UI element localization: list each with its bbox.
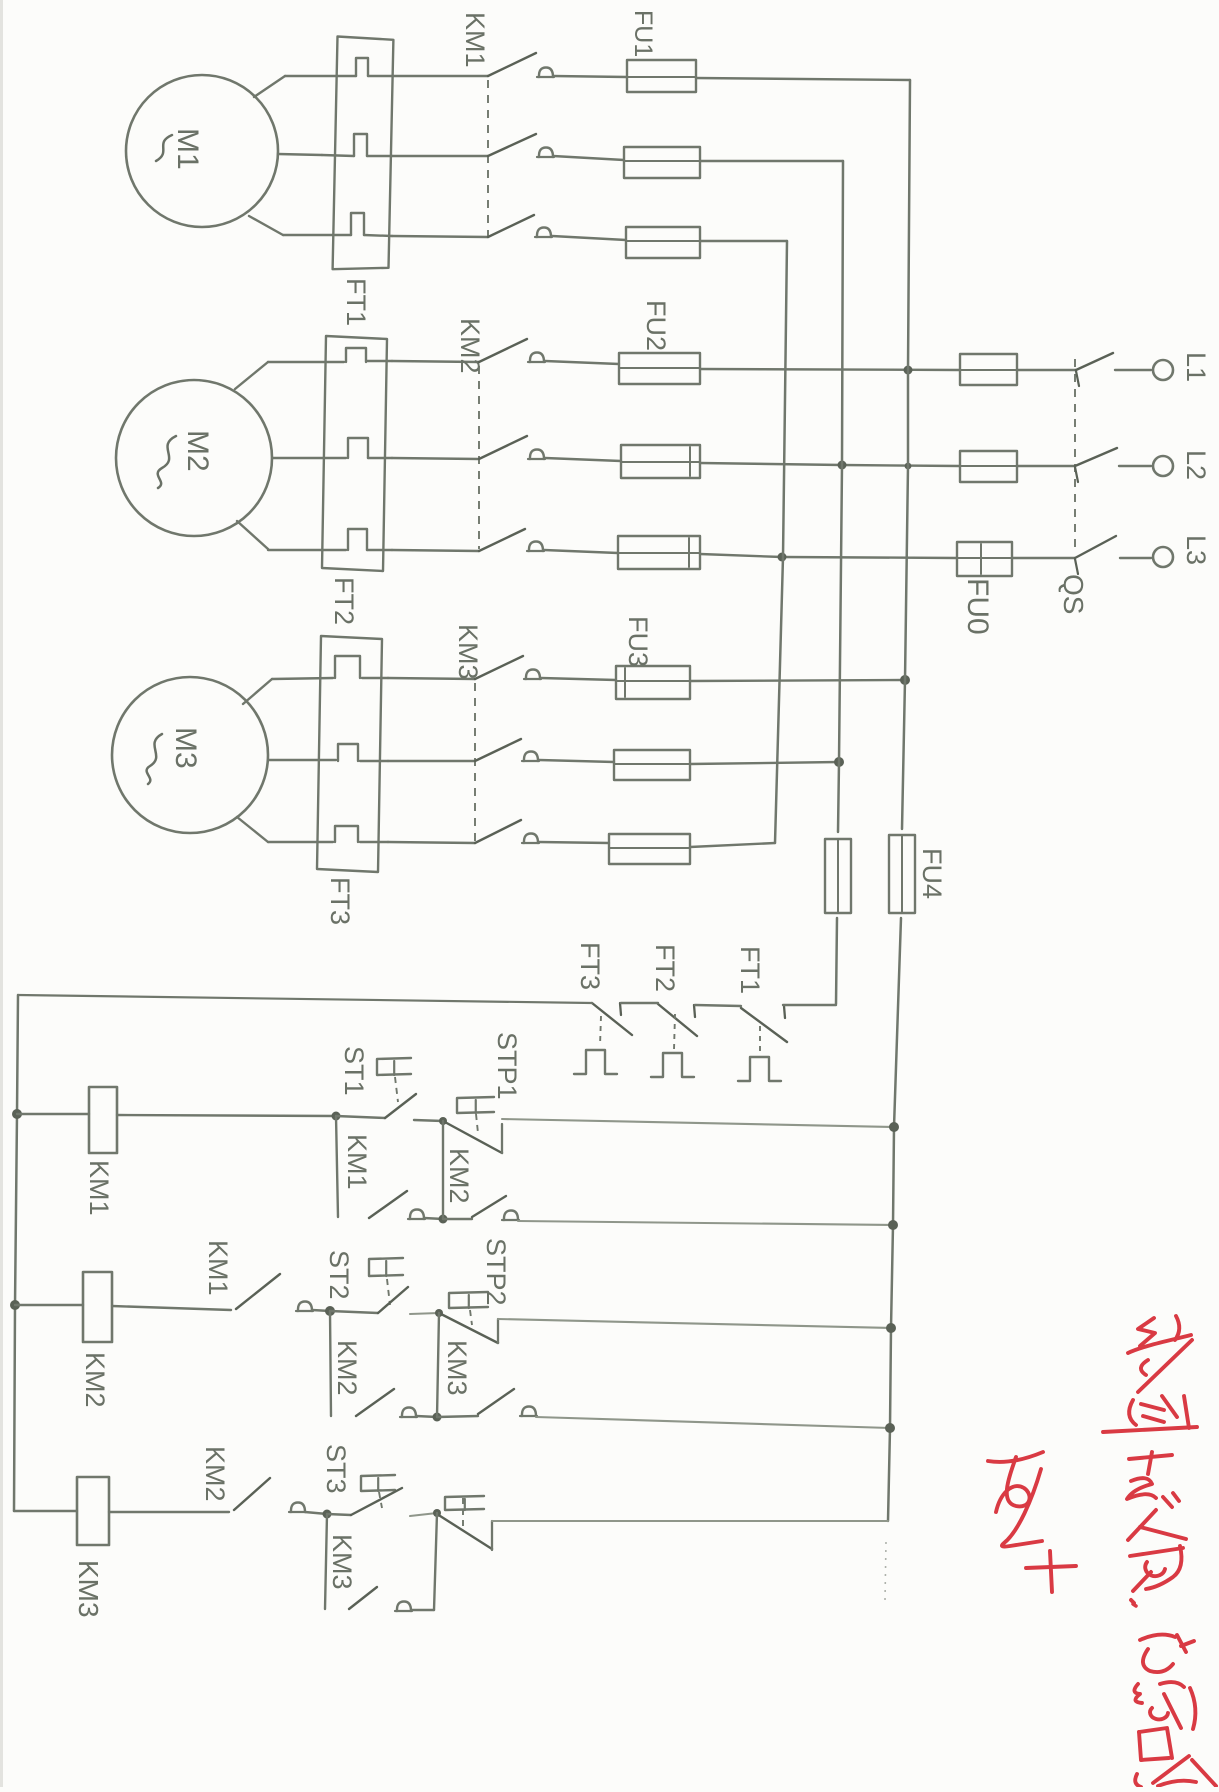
label FT2 [329, 577, 359, 625]
wire KM3-to-right-rail (row2) [536, 1417, 890, 1428]
wire KM2-to-FU2 V [545, 458, 621, 461]
wire FT3-to-FT2 [621, 1002, 658, 1004]
wire M2 lead U [235, 362, 268, 389]
wire coil KM2-to-KM1 [112, 1306, 231, 1310]
label KM2 (row1) [444, 1148, 474, 1204]
wire seal drop KM1 [336, 1116, 338, 1217]
wire seal drop KM2 [330, 1311, 331, 1416]
button STP2 actuator [449, 1292, 488, 1325]
contact KM1 seat (row2) [296, 1302, 313, 1312]
junction row3 node A [323, 1510, 332, 1519]
wire KM2-to-right-rail (row1) [518, 1221, 893, 1225]
contact KM3 blade (row2) [478, 1389, 514, 1414]
heater element FT1-W [351, 213, 364, 235]
wire FU3-to-busB [690, 762, 839, 764]
svg-text:KM2: KM2 [200, 1446, 230, 1502]
svg-text:KM2: KM2 [80, 1352, 110, 1408]
heater element FT1-U [356, 58, 368, 76]
wire M1 lead U [254, 76, 285, 97]
junction busA-L2 crossing [905, 463, 912, 470]
label KM2 [455, 318, 485, 374]
wire L2 row FU2-to-FU0 [700, 463, 960, 466]
wire M1 lead W [249, 216, 283, 235]
disconnect QS linkage (dashed) [1074, 359, 1076, 554]
svg-text:FT3: FT3 [325, 877, 355, 925]
svg-text:KM3: KM3 [73, 1560, 104, 1618]
coil KM3 [77, 1477, 109, 1545]
svg-text:ST2: ST2 [324, 1250, 354, 1300]
junction busB-M3V [834, 757, 844, 767]
wire FU1-to-busC [700, 240, 787, 242]
contact FT1 NC blade [741, 1006, 787, 1042]
wire QS-to-L3 [1120, 557, 1151, 559]
wire FT2-to-FT1 [695, 1005, 741, 1006]
svg-text:M2: M2 [181, 430, 214, 472]
wire rail-to-coil KM1 [17, 1113, 89, 1115]
wire KM3-to-FU3 U [541, 678, 616, 680]
svg-text:FU1: FU1 [629, 10, 657, 57]
heater element FT2-W [348, 529, 367, 550]
wire FU0-to-QS L3 [1012, 557, 1075, 559]
terminal L3 [1153, 547, 1173, 567]
wire FU3-to-busC [690, 843, 775, 847]
wire KM1-to-FU1 V [553, 156, 624, 160]
fuse FU1 U [627, 60, 696, 92]
wire FU1-to-busA [696, 78, 910, 80]
contact KM2 seal blade [356, 1389, 394, 1416]
label M3 [147, 727, 202, 784]
wire riser row3 [434, 1513, 437, 1610]
left rail [14, 995, 18, 1511]
wire KM1-to-nodeA row2 [312, 1310, 330, 1311]
label FU2 [641, 300, 671, 351]
label ST2 [324, 1250, 354, 1300]
red score mark [988, 1452, 1076, 1592]
contact KM2 U seat [528, 353, 545, 363]
label FT2 (aux) [650, 944, 680, 992]
junction row2 node A [325, 1306, 335, 1316]
bus L1 (vertical) [902, 80, 910, 829]
wire rail-to-coil KM2 [15, 1304, 83, 1306]
fuse FU3 U [616, 666, 690, 699]
bus L2 (vertical) [838, 161, 843, 832]
label FU4 [917, 848, 947, 899]
fuse FU1 V [624, 147, 700, 178]
wire KM3seal-to-riser [412, 1609, 434, 1611]
contact KM3 seat (row2) [520, 1407, 537, 1417]
wire ST2-to-nodeB [410, 1313, 439, 1314]
button ST2 actuator [369, 1258, 403, 1305]
label L2 [1181, 450, 1211, 480]
svg-text:STP1: STP1 [492, 1032, 522, 1100]
contact KM3 W blade [475, 820, 521, 843]
coil KM2 [83, 1272, 112, 1342]
contact KM1 blade (row2) [236, 1274, 280, 1309]
red note char 4 [1128, 1510, 1186, 1603]
label KM1 [460, 12, 490, 68]
wire M2 W motor-to-FT2 [268, 549, 392, 551]
red note line2 char 2 [1134, 1682, 1195, 1729]
terminal L1 [1153, 360, 1173, 380]
contact KM3 V seat [522, 752, 539, 762]
fuse FU3 V [614, 750, 690, 780]
wire ST1-to-nodeB [414, 1120, 443, 1121]
label FT1 (aux) [735, 946, 765, 994]
switch QS L3 blade [1075, 536, 1116, 574]
wire FT3-to-KM3 U [388, 678, 475, 679]
wire FT2-to-KM2 U [392, 361, 479, 362]
junction row2 node C [433, 1413, 442, 1422]
junction row3 node B [433, 1509, 441, 1517]
svg-text:STP2: STP2 [481, 1238, 511, 1306]
label KM2 (seal) [332, 1340, 362, 1396]
fuse FU2 V [621, 445, 700, 478]
wire nodeA-to-ST1 [336, 1116, 385, 1118]
contact KM3 U blade [475, 656, 523, 679]
contact KM2 W seat [527, 542, 544, 552]
switch QS L1 blade [1076, 353, 1113, 386]
label FT3 (aux) [575, 942, 605, 990]
red note char 3 [1127, 1452, 1179, 1507]
label ST3 [321, 1444, 351, 1494]
contact KM2 seat (row1) [502, 1211, 519, 1221]
fuse FU0 L2 [960, 451, 1017, 482]
red note char 1 [1128, 1316, 1192, 1392]
label STP2 [481, 1238, 511, 1306]
label KM3 (seal) [327, 1534, 357, 1590]
wire M2 V motor-to-FT2 [272, 457, 392, 459]
contactor KM2 linkage (dashed) [478, 366, 480, 549]
contact KM1 seal seat [408, 1210, 425, 1220]
wire KM1-to-FU1 W [552, 236, 626, 240]
wire control feed (FT3 to left rail) [18, 995, 592, 1003]
wire FT1-to-KM1 W [392, 236, 488, 237]
svg-text:FT2: FT2 [329, 577, 359, 625]
wire nodeA-to-ST2 [330, 1311, 378, 1313]
wire M3 V motor-to-FT3 [268, 760, 388, 761]
svg-text:FU0: FU0 [961, 578, 994, 635]
wire FT1-to-KM1 U [392, 75, 488, 77]
junction right-rail row2-top [886, 1323, 896, 1333]
contact KM3 U seat [524, 670, 541, 680]
wire M2 U motor-to-FT2 [268, 361, 392, 362]
button STP3 NC blade [437, 1514, 492, 1550]
wire M3 W motor-to-FT3 [268, 841, 388, 843]
wire nodeA-to-ST3 [327, 1514, 351, 1515]
wire FT2-to-KM2 V [392, 458, 479, 459]
label FU1 [629, 10, 657, 57]
svg-text:KM3: KM3 [453, 624, 483, 680]
svg-text:QS: QS [1058, 574, 1089, 614]
junction row1 node C [439, 1215, 448, 1224]
label FT3 [325, 877, 355, 925]
svg-text:L2: L2 [1181, 450, 1211, 480]
label KM1 (row2) [203, 1240, 233, 1296]
FT3 actuator link (dashed) [600, 1016, 601, 1046]
wire rail-to-coil KM3 [14, 1510, 77, 1512]
label L3 [1181, 535, 1211, 565]
heater element FT2-V [348, 438, 368, 458]
terminal L2 [1153, 456, 1173, 476]
thermal symbol FT2 [651, 1053, 694, 1077]
svg-text:FU3: FU3 [623, 616, 653, 667]
svg-text:L1: L1 [1181, 352, 1211, 382]
svg-text:KM2: KM2 [332, 1340, 362, 1396]
wire KM2-to-FU2 U [545, 361, 619, 364]
wire FT3-to-KM3 V [388, 760, 475, 762]
contact KM1 U blade [488, 53, 536, 76]
junction left-rail row1 [12, 1109, 22, 1119]
heater element FT2-U [346, 348, 366, 362]
label ST1 [339, 1046, 369, 1096]
wire STP2-to-right-rail [498, 1319, 891, 1328]
contact KM1 V blade [488, 134, 536, 156]
wire STP3-to-right-rail [492, 1520, 888, 1522]
contact KM2 V seat [528, 450, 545, 460]
wire FT1-to-KM1 V [392, 155, 488, 157]
wire M1 W motor-to-FT1 [283, 235, 392, 236]
wire L1 row FU2-to-FU0 [700, 369, 960, 370]
junction busA-L1 [904, 366, 913, 375]
wire busB below FU4 [836, 918, 837, 1004]
contact KM2 blade (row3) [234, 1478, 270, 1510]
wire STP1-to-right-rail [502, 1119, 894, 1127]
wire M3 lead U [243, 679, 272, 704]
fuse FU4-a (L2 tap) [825, 839, 851, 913]
junction right-rail row2-bottom [885, 1423, 895, 1433]
wire FU0-to-QS L2 [1017, 465, 1075, 467]
fuse FU0 L1 [960, 354, 1017, 385]
junction left-rail row2 [10, 1300, 20, 1310]
junction busA-M3U [900, 675, 910, 685]
contactor KM3 linkage (dashed) [474, 683, 476, 841]
wire seal drop KM3 [325, 1514, 327, 1609]
wire coil KM3-to-KM2 [109, 1511, 229, 1513]
junction busB-L2 [838, 461, 847, 470]
label QS [1058, 574, 1089, 614]
wire KM1seal-to-riser [424, 1218, 443, 1219]
contact KM2 seat (row3) [289, 1503, 306, 1513]
svg-text:KM2: KM2 [444, 1148, 474, 1204]
label KM1 (coil) [84, 1160, 114, 1216]
contact KM2 U blade [479, 339, 527, 362]
wire KM2-to-nodeA row3 [305, 1512, 327, 1514]
red note char 2 [1103, 1396, 1197, 1432]
fuse FU2 W [618, 536, 700, 569]
heater element FT1-V [354, 134, 367, 156]
wire M1 U motor-to-FT1 [285, 75, 392, 77]
label FT1 [341, 278, 371, 326]
bus L3 (vertical) [775, 241, 787, 843]
label M1 [156, 128, 204, 170]
label FU3 [623, 616, 653, 667]
FT1 actuator link (dashed) [759, 1026, 761, 1055]
heater element FT3-U [335, 656, 360, 678]
thermal symbol FT3 [574, 1050, 617, 1074]
wire KM3-to-FU3 W [539, 842, 609, 843]
svg-text:FU4: FU4 [917, 848, 947, 899]
contact KM2 W blade [479, 529, 525, 551]
FT2 actuator link (dashed) [674, 1014, 675, 1050]
contact KM1 W seat [535, 228, 552, 238]
contact KM1 V seat [537, 148, 554, 158]
label KM2 (coil) [80, 1352, 110, 1408]
contact KM3 seal seat [395, 1602, 412, 1612]
label KM3 (row2) [442, 1340, 472, 1396]
wire FT1-right [783, 1004, 836, 1006]
contact FT2 NC blade [658, 1004, 697, 1036]
fuse FU0 L3 [957, 542, 1012, 576]
svg-text:FT1: FT1 [341, 278, 371, 326]
button ST2 NO blade [378, 1287, 408, 1313]
wire FT3-to-KM3 W [388, 842, 475, 843]
thermal overload FT3 box [317, 636, 382, 872]
thermal overload FT1 box [333, 37, 394, 270]
wire M3 U motor-to-FT3 [272, 678, 388, 679]
svg-text:KM3: KM3 [327, 1534, 357, 1590]
junction row1 node A [332, 1112, 341, 1121]
contact KM2 blade (row1) [472, 1196, 506, 1217]
svg-text:M1: M1 [171, 128, 204, 170]
wire M1 V motor-to-FT1 [322, 155, 392, 156]
contact FT3 NC blade [592, 1003, 632, 1035]
svg-text:KM1: KM1 [460, 12, 490, 68]
label L1 [1181, 352, 1211, 382]
contact KM1 U seat [537, 68, 554, 78]
button STP2 NC blade [439, 1313, 498, 1343]
button ST1 NO blade [385, 1094, 416, 1118]
wire KM2-to-FU2 W [544, 550, 618, 553]
motor M2 [116, 380, 272, 536]
motor M1 [126, 75, 278, 227]
svg-text:ST3: ST3 [321, 1444, 351, 1494]
contact KM1 W blade [488, 215, 534, 237]
svg-text:FT2: FT2 [650, 944, 680, 992]
svg-text:KM2: KM2 [455, 318, 485, 374]
wire M3 lead W [237, 817, 268, 842]
wire busA below FU4 (right rail) [888, 918, 901, 1521]
svg-text:KM1: KM1 [342, 1134, 372, 1190]
wire FT2-to-KM2 W [392, 550, 479, 551]
contact KM3 seal blade [349, 1587, 377, 1609]
contact KM2 seal seat [400, 1408, 417, 1418]
heater element FT3-W [335, 826, 358, 842]
label STP1 [492, 1032, 522, 1100]
button STP3 actuator [445, 1496, 484, 1528]
thermal symbol FT1 [738, 1057, 781, 1081]
red note line2 char 4 [1135, 1756, 1216, 1787]
wire nodeC-to-KM3 [437, 1416, 478, 1417]
svg-text:ST1: ST1 [339, 1046, 369, 1096]
fuse FU3 W [609, 834, 690, 864]
button STP1 NC blade [443, 1121, 502, 1153]
svg-text:KM3: KM3 [442, 1340, 472, 1396]
red note line2 char 1 [1140, 1635, 1194, 1672]
svg-text:FT1: FT1 [735, 946, 765, 994]
junction row1 node B [439, 1117, 447, 1125]
wire M2 lead W [237, 521, 268, 549]
contact KM3 V blade [475, 739, 521, 761]
button ST3 NO blade [351, 1488, 402, 1515]
wire FU1-to-busB [700, 160, 843, 162]
svg-text:KM1: KM1 [84, 1160, 114, 1216]
label M2 [158, 430, 214, 488]
wire coil KM1-to-ST1 [117, 1115, 336, 1116]
contact KM1 seal blade [369, 1191, 407, 1218]
svg-text:KM1: KM1 [203, 1240, 233, 1296]
thermal overload FT2 box [322, 336, 387, 571]
contact KM2 V blade [479, 436, 527, 459]
wire riser row1 [442, 1121, 444, 1219]
junction busC-L3 [778, 553, 787, 562]
label KM2 (row3) [200, 1446, 230, 1502]
red tiny dot [1133, 1604, 1136, 1606]
button ST1 actuator [377, 1058, 411, 1102]
wire FU3-to-busA [690, 680, 905, 681]
wire QS-to-L1 [1115, 369, 1151, 371]
wire KM1-to-FU1 U [553, 76, 627, 77]
contactor KM1 linkage (dashed) [487, 80, 489, 236]
svg-text:M3: M3 [169, 727, 202, 769]
wire QS-to-L2 [1119, 465, 1151, 467]
label KM3 [453, 624, 483, 680]
wire KM3-to-FU3 V [539, 760, 614, 762]
junction right-rail row1-top [889, 1122, 899, 1132]
wire FU0-to-QS L1 [1017, 369, 1076, 371]
wire L3 row FU2-to-FU0 [700, 554, 957, 558]
junction right-rail row1-bottom [888, 1220, 898, 1230]
svg-text:FU2: FU2 [641, 300, 671, 351]
remnant dotted mark [885, 1542, 886, 1600]
label KM3 (coil) [73, 1560, 104, 1618]
switch QS L2 blade [1075, 448, 1117, 482]
contact KM3 W seat [522, 834, 539, 844]
label FU0 [961, 578, 994, 635]
svg-text:FT3: FT3 [575, 942, 605, 990]
wire riser row2 [437, 1313, 439, 1417]
coil KM1 [89, 1087, 117, 1153]
wire M1 lead V [278, 154, 322, 155]
wire KM2seal-to-riser [416, 1416, 437, 1417]
button STP1 actuator [457, 1097, 494, 1133]
label KM1 (seal) [342, 1134, 372, 1190]
fuse FU1 W [626, 227, 700, 258]
svg-text:L3: L3 [1181, 535, 1211, 565]
heater element FT3-V [338, 744, 358, 761]
fuse FU4-b (L1 tap) [889, 835, 915, 913]
junction row2 node B [435, 1309, 443, 1317]
wire ST3-to-nodeB [410, 1513, 437, 1516]
fuse FU2 U [619, 353, 700, 384]
motor M3 [112, 677, 268, 833]
red note line2 char 3 [1139, 1728, 1172, 1760]
button ST3 actuator [361, 1475, 395, 1508]
wire nodeC-to-KM2 [443, 1218, 472, 1220]
